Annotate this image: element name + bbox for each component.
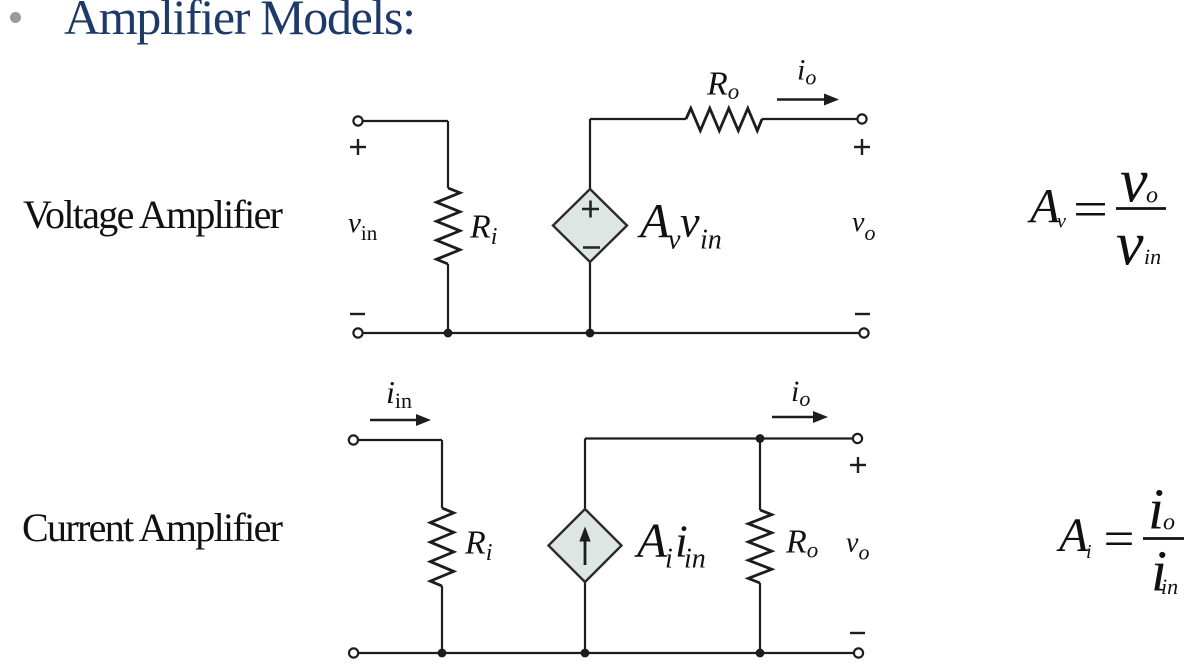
svg-text:v: v [1116, 211, 1144, 279]
wire: top rail from source to Ro [590, 118, 686, 120]
polarity + (output, circuit 1) [854, 139, 870, 155]
dependent source Av*vin (diamond) [553, 189, 627, 262]
resistor Ri (voltage amp) [437, 188, 461, 264]
terminal: output + (circuit 1) [857, 114, 866, 123]
svg-text:vo: vo [852, 207, 875, 245]
bullet [10, 12, 21, 23]
svg-text:vin: vin [348, 207, 378, 245]
svg-text:in: in [700, 225, 722, 256]
svg-text:vo: vo [846, 528, 869, 565]
arrow io (circuit 2) [772, 411, 828, 423]
wire: input branch down to Ri (circuit 2) [441, 440, 443, 508]
terminal: input + (circuit 1) [353, 116, 362, 125]
svg-text:v: v [680, 198, 700, 247]
junction: Ri bottom node (circuit 2) [438, 649, 447, 658]
wire: top rail to output (circuit 2) [585, 437, 857, 439]
svg-text:Ro: Ro [785, 524, 818, 563]
wire: Ro top lead (circuit 2) [759, 439, 761, 511]
polarity + (input, circuit 1) [350, 139, 366, 155]
svg-text:Ri: Ri [469, 209, 497, 251]
wire: input branch down to Ri [447, 121, 449, 188]
svg-text:A: A [637, 193, 671, 248]
svg-text:Amplifier Models:: Amplifier Models: [64, 0, 416, 45]
wire: bottom rail (circuit 2) [358, 652, 858, 654]
svg-text:i: i [1148, 477, 1164, 542]
wire: dependent source top lead (circuit 2) [584, 439, 586, 510]
junction: Ro bottom node (circuit 2) [756, 649, 765, 658]
junction: Ri bottom node [444, 329, 453, 338]
formula Ai = io/iin [1056, 477, 1184, 604]
terminal: input - (circuit 1) [353, 328, 362, 337]
formula Av = vo/vin [1027, 148, 1166, 279]
terminal: input bottom (circuit 2) [349, 648, 358, 657]
wire: bottom rail [362, 332, 860, 334]
wire: input top horizontal (circuit 2) [358, 439, 442, 441]
polarity + (output, circuit 2) [850, 457, 866, 473]
terminal: output - (circuit 2) [854, 648, 863, 657]
svg-text:io: io [791, 375, 810, 411]
wire: Ri to bottom rail (circuit 2) [441, 586, 443, 653]
junction: source bottom node (circuit 2) [581, 649, 590, 658]
wire: Ro bottom lead (circuit 2) [759, 583, 761, 653]
terminal: input top (circuit 2) [349, 435, 358, 444]
svg-text:=: = [1073, 181, 1108, 237]
svg-text:o: o [1146, 183, 1158, 209]
svg-text:i: i [665, 544, 673, 575]
polarity - (output, circuit 1) [855, 313, 870, 315]
wire: Ro to output terminal [762, 118, 857, 120]
polarity - (output, circuit 2) [850, 632, 865, 634]
junction: Ro top node (circuit 2) [756, 434, 765, 443]
svg-text:v: v [1057, 211, 1066, 233]
svg-text:A: A [634, 513, 668, 568]
polarity - (input, circuit 1) [350, 313, 365, 315]
svg-text:o: o [1163, 510, 1175, 536]
svg-text:v: v [1120, 148, 1148, 216]
wire: dependent source bottom lead (circuit 2) [584, 582, 586, 653]
dependent source Ai*iin (diamond with arrow) [549, 509, 622, 582]
svg-text:io: io [797, 54, 816, 90]
junction: source bottom node [586, 329, 595, 338]
svg-text:A: A [1056, 509, 1089, 562]
wire: Ri to bottom rail [447, 264, 449, 333]
svg-text:in: in [1144, 244, 1161, 269]
label Av vin (controlled source value) [637, 193, 722, 256]
arrow iin (circuit 2) [370, 414, 431, 426]
svg-text:Ri: Ri [464, 525, 492, 567]
svg-text:=: = [1104, 511, 1135, 567]
wire: dependent source bottom lead [589, 262, 591, 333]
svg-text:Voltage Amplifier: Voltage Amplifier [23, 192, 283, 237]
wire: input top horizontal [363, 120, 448, 122]
svg-text:in: in [1161, 574, 1178, 599]
label Ai iin (controlled source value) [634, 513, 706, 575]
svg-text:A: A [1027, 178, 1061, 233]
terminal: output - (circuit 1) [859, 328, 868, 337]
svg-text:Ro: Ro [706, 66, 739, 105]
svg-text:in: in [684, 544, 706, 575]
resistor Ri (current amp) [430, 508, 453, 586]
wire: dependent source top lead [589, 119, 591, 189]
terminal: output + (circuit 2) [853, 434, 862, 443]
arrow io (circuit 1) [777, 94, 839, 106]
resistor Ro (current amp, shunt) [748, 510, 771, 583]
resistor Ro (voltage amp, series) [686, 108, 762, 130]
svg-text:i: i [1086, 541, 1092, 563]
svg-text:iin: iin [386, 374, 412, 413]
svg-text:Current Amplifier: Current Amplifier [22, 505, 283, 550]
